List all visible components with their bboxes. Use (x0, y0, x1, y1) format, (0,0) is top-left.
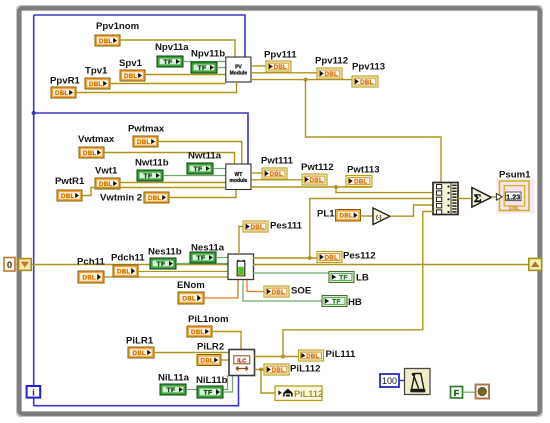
wire i to ILC module (34, 376, 239, 406)
wire Tpv1 to PV module (110, 83, 226, 85)
terminal NiL11b TF control (197, 386, 223, 398)
wire Vwtmax to WT module top (104, 153, 235, 165)
wire Nes11b to battery (176, 263, 228, 265)
svg-text:Pes111: Pes111 (270, 221, 303, 232)
wire WT out3 to Pwt113 (251, 186, 372, 188)
svg-text:PiLR1: PiLR1 (126, 336, 154, 347)
terminal Nes11b TF control (150, 258, 176, 269)
wire Vwt1 to WT module (120, 182, 226, 184)
terminal 0 constant (4, 258, 15, 272)
svg-text:NiL11b: NiL11b (196, 375, 228, 386)
wire ILC out1 to PiL111 (255, 356, 299, 358)
svg-text:Pes112: Pes112 (343, 251, 376, 262)
wire Ppv113 branch down (306, 80, 442, 183)
wire Pwtmax to WT module top (158, 142, 242, 165)
svg-text:module: module (230, 178, 248, 184)
function wait until next ms multiple (405, 369, 431, 395)
terminal Tpv1 DBL control (85, 78, 110, 89)
svg-text:DBL: DBL (201, 357, 214, 364)
node junction PiL112 branch (259, 368, 263, 372)
svg-text:DBL: DBL (272, 289, 285, 296)
svg-text:ILC: ILC (237, 359, 246, 365)
svg-text:DBL: DBL (55, 90, 68, 97)
terminal PL1 DBL control (336, 210, 361, 222)
svg-text:TF: TF (143, 173, 152, 180)
svg-text:DBL: DBL (360, 79, 373, 86)
wire PiLR2 to ILC (221, 359, 229, 361)
svg-text:HB: HB (348, 297, 362, 308)
wire PiL112 branch to local variable (261, 370, 275, 394)
terminal PiLR1 DBL control (128, 347, 154, 358)
svg-text:PiL112: PiL112 (294, 389, 323, 399)
svg-text:0: 0 (7, 260, 12, 271)
wire Npv11a to PV module (183, 61, 226, 63)
svg-text:Pwtmax: Pwtmax (128, 124, 165, 135)
svg-text:Ppv1nom: Ppv1nom (96, 21, 139, 32)
wire battery to HB (243, 280, 322, 301)
svg-text:Pdch11: Pdch11 (111, 253, 145, 264)
svg-text:Tpv1: Tpv1 (85, 66, 108, 77)
wire PwtR1 to WT module (82, 188, 226, 196)
svg-text:PiL112: PiL112 (290, 364, 320, 375)
svg-text:DBL: DBL (306, 353, 319, 360)
svg-text:Vwtmin 2: Vwtmin 2 (100, 193, 142, 204)
wire i to WT module (34, 113, 248, 164)
wire battery out to Pes112 (253, 257, 317, 259)
terminal Spv1 DBL control (120, 70, 145, 81)
svg-text:DBL: DBL (251, 224, 264, 231)
terminal Vwt1 DBL control (95, 178, 120, 189)
svg-text:Nwt11a: Nwt11a (188, 151, 222, 162)
svg-text:DBL: DBL (272, 367, 285, 374)
svg-text:DBL: DBL (509, 206, 520, 212)
svg-text:PiL111: PiL111 (326, 349, 357, 360)
svg-text:TF: TF (166, 387, 175, 394)
wire compound to sum (458, 198, 471, 200)
svg-text:Vwtmax: Vwtmax (78, 134, 115, 145)
wire 100 to wait (399, 380, 405, 382)
svg-text:PL1: PL1 (317, 209, 335, 220)
wire PiL1nom to ILC top (212, 332, 241, 350)
svg-text:TF: TF (193, 166, 202, 173)
svg-text:TF: TF (203, 390, 212, 397)
wire shift register to battery (31, 264, 228, 266)
node junction PiL111 branch (281, 355, 285, 359)
wire Nwt11a to WT module (213, 168, 226, 170)
wire Nes11a to battery (216, 257, 228, 259)
svg-text:DBL: DBL (61, 193, 74, 200)
svg-text:DBL: DBL (117, 268, 130, 275)
wire 0 to shift register (15, 263, 19, 265)
svg-text:Σ: Σ (474, 193, 482, 205)
svg-text:DBL: DBL (137, 139, 150, 146)
svg-text:PiL1nom: PiL1nom (188, 314, 229, 325)
svg-text:Nwt11b: Nwt11b (135, 158, 169, 169)
svg-text:100: 100 (382, 376, 397, 386)
wire battery to SOE (247, 280, 264, 292)
svg-text:LB: LB (356, 273, 369, 284)
wire PiL111 branch up to array input5 (283, 212, 433, 357)
wire battery to LB (253, 272, 329, 274)
svg-text:DBL: DBL (325, 254, 338, 261)
svg-text:DBL: DBL (183, 295, 196, 302)
svg-text:DBL: DBL (191, 329, 204, 336)
terminal Pwtmax DBL control (133, 136, 158, 147)
wire PiLR1 to ILC (154, 352, 229, 354)
terminal NiL11a TF control (160, 384, 186, 395)
terminal Ppv111 DBL indicator (266, 61, 291, 72)
svg-text:1.23: 1.23 (506, 192, 520, 201)
svg-text:Ppv113: Ppv113 (352, 62, 385, 73)
wire F to loop condition (463, 391, 476, 393)
wire i vertical trunk (33, 15, 35, 386)
wire Ppv1nom to PV module top (120, 40, 235, 57)
wire Pwt113 branch to array input2 (336, 187, 433, 193)
svg-text:i: i (32, 389, 35, 399)
svg-text:Ppv112: Ppv112 (315, 56, 348, 67)
terminal Nwt11a TF control (187, 163, 213, 174)
terminal Ppv1nom DBL control (95, 35, 120, 46)
wire Spv1 to PV module (145, 74, 226, 76)
svg-text:TF: TF (163, 59, 172, 66)
subVI ILC module (229, 350, 255, 376)
wire NiL11b to ILC bottom (223, 376, 233, 393)
svg-text:Pwt113: Pwt113 (347, 165, 380, 176)
wire PV out1 to Ppv111 (251, 65, 266, 67)
terminal Nwt11b TF control (137, 170, 163, 181)
wire PpvR1 to PV module bottom (76, 83, 237, 93)
node junction Pes112 branch (308, 256, 312, 260)
local variable PiL112 (275, 386, 323, 401)
svg-text:TF: TF (332, 299, 341, 306)
svg-text:Pwt112: Pwt112 (301, 162, 334, 173)
wire NiL11a to ILC bottom (186, 376, 228, 390)
wire negate to array input4 (390, 205, 433, 216)
svg-text:Spv1: Spv1 (119, 58, 143, 69)
terminal PiL1nom DBL control (187, 326, 212, 337)
wire Nwt11b to WT module (163, 175, 226, 177)
svg-text:DBL: DBL (83, 274, 96, 281)
wire ILC out2 to PiL112 (255, 369, 265, 371)
svg-text:DBL: DBL (124, 73, 137, 80)
terminal Ppv112 DBL indicator (317, 68, 342, 79)
constant F boolean (451, 387, 463, 399)
svg-text:DBL: DBL (310, 177, 323, 184)
svg-text:TF: TF (197, 65, 206, 72)
terminal Pes111 DBL indicator (243, 221, 268, 232)
svg-text:Vwt1: Vwt1 (95, 166, 118, 177)
svg-text:F: F (454, 388, 459, 398)
constant 100 (380, 374, 399, 387)
svg-text:Pwt111: Pwt111 (261, 156, 294, 167)
terminal HB TF indicator (322, 296, 347, 307)
wire Pdch11 to battery (138, 271, 228, 273)
svg-text:DBL: DBL (148, 195, 161, 202)
subVI PV Module (226, 57, 251, 82)
terminal SOE DBL indicator (264, 286, 289, 297)
function add array elements sum (472, 188, 491, 208)
terminal Pes112 DBL indicator (317, 252, 342, 263)
svg-text:Module: Module (230, 71, 248, 77)
terminal Pwt113 DBL indicator (346, 176, 372, 187)
terminal PiL111 DBL indicator (299, 350, 324, 361)
terminal LB TF indicator (329, 272, 354, 283)
terminal Nes11a TF control (190, 252, 216, 263)
terminal PiL112 DBL indicator (264, 364, 289, 375)
svg-text:Ppv111: Ppv111 (264, 50, 297, 61)
wire PL1 to negate (361, 215, 374, 217)
terminal Vwtmax DBL control (79, 147, 104, 158)
node i junction (32, 111, 36, 115)
svg-text:NiL11a: NiL11a (158, 373, 190, 384)
svg-text:PpvR1: PpvR1 (50, 76, 81, 87)
wire Vwtmin2 to WT module bottom (169, 190, 236, 198)
wire battery to right shift register (253, 264, 529, 266)
function compound arithmetic add (433, 183, 458, 215)
svg-text:(-): (-) (376, 215, 382, 221)
svg-text:SOE: SOE (291, 286, 312, 297)
wire PV out2 to Ppv112 (251, 72, 317, 74)
wire ENom to battery bottom (204, 297, 238, 299)
svg-text:PwtR1: PwtR1 (55, 176, 85, 187)
subVI WT module (226, 164, 251, 190)
svg-text:DBL: DBL (270, 171, 283, 178)
wire Pes112 branch up to array input3 (310, 199, 433, 259)
iteration terminal i (27, 386, 41, 399)
terminal Vwtmin 2 DBL control (144, 192, 169, 203)
svg-text:DBL: DBL (340, 213, 353, 220)
svg-text:DBL: DBL (83, 150, 96, 157)
terminal PiLR2 DBL control (197, 355, 221, 366)
left shift register (19, 259, 32, 271)
node junction Ppv113 branch (304, 78, 308, 82)
svg-text:DBL: DBL (99, 38, 112, 45)
subVI battery ES module (228, 254, 254, 280)
terminal Psum1 numeric indicator icon (496, 179, 534, 214)
wire i to PV module (34, 15, 245, 57)
svg-text:DBL: DBL (325, 71, 338, 78)
terminal Pch11 DBL control (78, 271, 104, 283)
wire WT out2 to Pwt112 (251, 179, 302, 181)
svg-text:DBL: DBL (133, 350, 146, 357)
svg-text:DBL: DBL (89, 81, 102, 88)
wire Pch11 to battery (104, 276, 228, 278)
loop condition terminal (476, 385, 490, 399)
terminal ENom DBL control (178, 292, 204, 304)
terminal Npv11b TF control (191, 62, 217, 73)
wire PV out3 to Ppv113 (251, 79, 352, 81)
wire sum to Psum1 (491, 196, 496, 198)
svg-text:DBL: DBL (354, 178, 367, 185)
svg-text:TF: TF (196, 255, 205, 262)
right shift register (529, 258, 542, 270)
svg-text:TF: TF (156, 261, 165, 268)
terminal PpvR1 DBL control (51, 87, 76, 98)
node junction Pwt113 branch (334, 185, 338, 189)
svg-text:PiLR2: PiLR2 (197, 342, 224, 353)
wire Npv11b to PV module (217, 67, 226, 69)
terminal Npv11a TF control (157, 56, 183, 67)
svg-text:Pch11: Pch11 (77, 257, 105, 268)
svg-text:Npv11a: Npv11a (155, 42, 189, 53)
svg-text:Nes11b: Nes11b (148, 247, 182, 258)
svg-text:DBL: DBL (274, 64, 287, 71)
terminal Ppv113 DBL indicator (352, 76, 378, 87)
svg-text:ENom: ENom (177, 280, 205, 291)
terminal Pdch11 DBL control (113, 265, 138, 277)
wire battery top to Pes111 (239, 227, 243, 255)
wire WT out1 to Pwt111 (251, 172, 262, 174)
terminal Pwt112 DBL indicator (302, 174, 327, 185)
terminal PwtR1 DBL control (57, 190, 82, 201)
svg-text:TF: TF (339, 275, 348, 282)
function negate (373, 208, 390, 225)
svg-text:Npv11b: Npv11b (191, 49, 225, 60)
terminal Pwt111 DBL indicator (262, 168, 287, 179)
